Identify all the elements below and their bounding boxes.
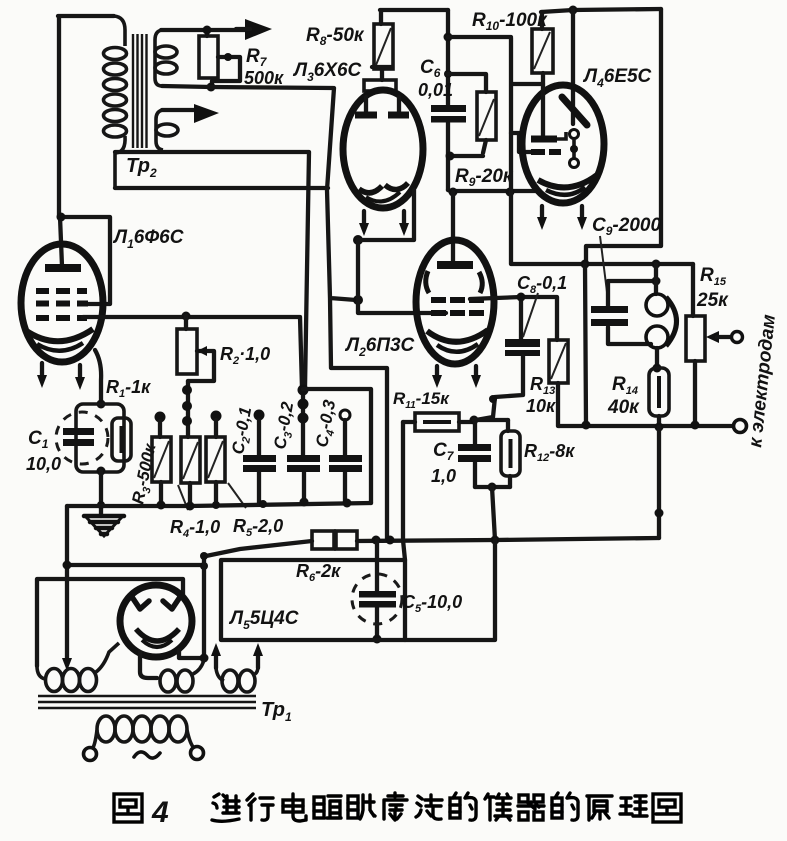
label Tp1: [261, 699, 292, 724]
label k electrodam rotated: [745, 313, 780, 448]
label C6: [418, 57, 453, 100]
svg-text:C9-2000: C9-2000: [592, 215, 661, 238]
tube L3 diode plates: [355, 97, 409, 115]
label R1: [106, 377, 151, 400]
svg-text:C5-10,0: C5-10,0: [402, 592, 462, 615]
label R6: [296, 561, 341, 584]
svg-text:Л46Е5С: Л46Е5С: [582, 66, 652, 90]
node: R2 top junction: [182, 312, 191, 321]
resistor R10: [512, 12, 553, 84]
label C4 rotated: [312, 398, 342, 449]
node: B rail junctions: [372, 536, 500, 545]
resistor R14: [649, 368, 669, 426]
svg-text:R10-100к: R10-100к: [472, 10, 548, 33]
svg-text:4: 4: [151, 796, 169, 829]
caption figure 4: [114, 794, 142, 822]
potentiometer R7: [199, 30, 218, 78]
svg-text:0,01: 0,01: [418, 80, 453, 100]
arrow: output arrow lower: [162, 104, 219, 123]
wire: screen line to C8 R13: [470, 293, 557, 341]
tube L2 cathode arcs: [427, 330, 488, 352]
wire: ground rail: [67, 498, 371, 511]
svg-text:R4-1,0: R4-1,0: [170, 517, 220, 540]
label R12: [524, 441, 575, 464]
transformer Tp2 core: [133, 34, 147, 148]
resistor R4: [181, 437, 200, 506]
wire: anode line y191: [448, 188, 537, 197]
terminal: electrode output: [734, 420, 747, 433]
capacitor C9: [591, 277, 661, 345]
transformer Tp2 lower right winding: [156, 110, 178, 150]
wire: L5 anode feeds: [179, 552, 209, 663]
label C7: [431, 440, 456, 486]
svg-text:1,0: 1,0: [431, 466, 456, 486]
label R11: [393, 389, 450, 411]
transformer Tp1 core: [38, 696, 256, 708]
tube L1 6F6S envelope: [21, 244, 103, 362]
label L3: [292, 60, 362, 84]
terminal: mains right: [191, 747, 204, 760]
capacitor C8: [476, 339, 540, 420]
wire: R15 wiper terminal: [706, 331, 743, 343]
label R10: [472, 10, 548, 33]
svg-text:R2·1,0: R2·1,0: [220, 344, 270, 367]
wire: R7 wiper: [212, 53, 240, 87]
svg-text:Л36Х6С: Л36Х6С: [292, 60, 362, 84]
capacitor C6: [431, 10, 466, 190]
svg-text:Л55Ц4С: Л55Ц4С: [228, 608, 299, 632]
capacitor C7: [458, 420, 491, 487]
svg-text:40к: 40к: [607, 397, 640, 418]
ground: [84, 516, 124, 536]
resistor R11: [403, 413, 474, 431]
resistor R5: [206, 411, 225, 506]
wire: top rail to grid arrow: [161, 28, 246, 32]
transformer Tp1 primary: [92, 716, 194, 749]
svg-text:R1-1к: R1-1к: [106, 377, 151, 400]
node: R11 C7 R12 junction: [470, 416, 509, 425]
label R3 rotated: [128, 441, 162, 507]
tube L1 grid dashes: [36, 291, 88, 318]
svg-text:Л26П3С: Л26П3С: [344, 335, 415, 359]
phone jack electrodes: [646, 264, 677, 373]
wire: R1C1 bottom to ground: [97, 467, 106, 517]
resistor R9: [446, 74, 497, 161]
resistor R13: [549, 340, 568, 426]
tube L4 anode feed: [571, 10, 575, 124]
capacitor C5: [352, 540, 402, 644]
tube L5 filament marks: [132, 597, 180, 609]
wire: L5 left pin to winding: [140, 652, 157, 678]
caption text pseudo glyphs: [212, 793, 681, 822]
node: R7 top: [203, 26, 212, 35]
transformer Tp2 upper right winding: [155, 30, 177, 86]
transformer Tp1 winding middle: [160, 660, 204, 692]
label R2: [220, 344, 270, 367]
svg-text:10,0: 10,0: [26, 454, 61, 474]
tube L1 filament pins: [37, 363, 85, 390]
resistor R3: [152, 412, 171, 506]
label R8: [306, 25, 365, 48]
wire: output rail y426: [559, 421, 732, 432]
label Tp2: [126, 155, 157, 180]
resistor R6: [206, 531, 659, 556]
label R14: [607, 374, 640, 418]
tube L2 control grid arcs: [426, 271, 483, 293]
label L4: [582, 66, 652, 90]
capacitor C1 plates: [63, 428, 94, 446]
tube L1 anode plate: [45, 264, 81, 272]
wire: right trunk x661: [586, 9, 661, 264]
svg-text:R8-50к: R8-50к: [306, 25, 365, 48]
label R15: [696, 265, 729, 311]
wire: Tp2 lead L1 to C3 node: [115, 152, 309, 388]
label C9: [592, 215, 661, 300]
transformer Tp2 left winding: [104, 16, 127, 188]
node: rail junctions: [581, 260, 661, 269]
tube L2 grid dashes: [431, 300, 484, 313]
resistor R12: [501, 420, 520, 487]
svg-text:10к: 10к: [526, 396, 556, 416]
tube L2 filament pins: [432, 366, 481, 388]
tube L1 cathode arcs: [25, 329, 93, 351]
label C5: [402, 592, 462, 615]
wire: heater lines left: [37, 506, 208, 666]
wire: L4 grid branch: [511, 133, 532, 152]
tube L3 cathode arcs: [359, 183, 408, 201]
svg-text:500к: 500к: [244, 68, 284, 88]
wire: trunk x510: [448, 37, 693, 264]
tube L4 cathode arcs: [538, 175, 597, 195]
node: L1 anode junction: [57, 213, 66, 222]
tube L3 top cap: [364, 67, 396, 91]
label R13: [526, 374, 556, 416]
wire: grid rail y317: [83, 317, 302, 388]
label C2 rotated: [228, 405, 258, 456]
label R7: [244, 46, 284, 88]
tube L5 5C4S envelope: [120, 585, 192, 657]
label C8: [517, 273, 567, 337]
capacitor C4: [329, 410, 362, 502]
arrow: output arrow top: [236, 19, 272, 40]
wire: R2 wiper: [188, 346, 214, 381]
label R5: [228, 483, 283, 539]
capacitor C1 electrolytic dashed circle: [56, 412, 108, 464]
svg-text:Л16Ф6С: Л16Ф6С: [112, 227, 184, 251]
tube L3 filament pins: [359, 211, 409, 236]
wire: R2 to R4 chain: [182, 381, 192, 437]
wire: L3 cathode to L2 grid: [353, 190, 446, 313]
wire: C7 R12 bottom tie: [475, 483, 510, 541]
tube L3 6H6S envelope: [343, 90, 423, 208]
resistor R2: [177, 316, 197, 374]
capacitor C2: [243, 410, 276, 505]
R1C1 block outline: [76, 404, 124, 472]
tube L2 anode feed: [451, 192, 455, 262]
svg-text:25к: 25к: [696, 290, 729, 311]
label C1: [26, 428, 61, 474]
node: R7 bottom rail junction: [207, 83, 216, 92]
wire: bias line B: [303, 389, 371, 503]
arrow: center tap into winding: [62, 658, 72, 671]
wire: screen-grid branch of L1: [60, 217, 110, 304]
wire: heater rail y87: [162, 86, 333, 88]
label L2: [344, 335, 415, 359]
wire: top B+ rail: [541, 6, 661, 15]
terminal: mains left: [84, 748, 97, 761]
wire: right return drop: [655, 427, 664, 538]
svg-text:R6-2к: R6-2к: [296, 561, 341, 584]
resistor R1: [112, 418, 131, 461]
svg-text:R11-15к: R11-15к: [393, 389, 450, 411]
tube L4 target diagonal: [562, 97, 587, 125]
transformer Tp1 winding right with arrows: [211, 643, 263, 692]
svg-text:R5-2,0: R5-2,0: [233, 516, 283, 539]
label C3 rotated: [270, 400, 300, 451]
label AC tilde: [134, 752, 160, 758]
resistor R8: [374, 10, 448, 69]
capacitor C3: [287, 385, 320, 503]
svg-text:R9-20к: R9-20к: [455, 166, 514, 189]
label L5: [228, 608, 299, 632]
label R9: [455, 166, 514, 189]
label R4: [170, 485, 220, 540]
svg-text:C8-0,1: C8-0,1: [517, 273, 567, 296]
tube L2 anode plate: [437, 261, 473, 269]
wire: R11 left drop x403: [403, 422, 405, 640]
wire: top-left anode feed: [58, 16, 114, 266]
wire: L5 box outline: [221, 540, 495, 640]
tube L4 interior: [531, 84, 579, 168]
tube L4 6E5S envelope: [522, 85, 604, 203]
wire: V2 drop from heater rail: [327, 88, 387, 540]
svg-text:R12-8к: R12-8к: [524, 441, 575, 464]
wire: Tp2 lead L2: [115, 186, 328, 190]
tube L2 6P3S envelope: [416, 240, 494, 364]
wire: L1 cathode lead: [95, 350, 101, 404]
wire: trunk x585 down: [585, 264, 586, 425]
transformer Tp1 winding left: [37, 643, 119, 692]
node: R1C1 top: [97, 400, 106, 409]
potentiometer R15: [686, 264, 705, 425]
tube L5 cathode arcs: [136, 629, 179, 647]
label L1 6F6S: [112, 227, 184, 251]
tube L4 filament pins: [537, 206, 587, 230]
